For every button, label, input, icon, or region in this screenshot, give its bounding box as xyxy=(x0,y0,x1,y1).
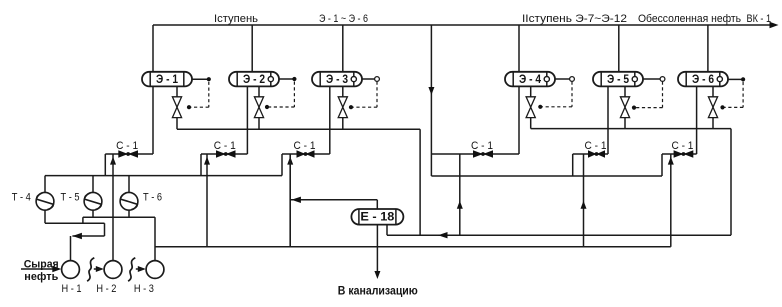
wire stage-I drain header xyxy=(177,128,420,130)
vessel electrodehydrator Э-1 xyxy=(142,72,192,87)
wire product drop from header to Э - 5 xyxy=(618,25,620,72)
svg-text:Iступень: Iступень xyxy=(214,13,258,25)
svg-text:С - 1: С - 1 xyxy=(471,140,493,152)
mixing valve C-1 #5 xyxy=(588,150,597,157)
node level instrument point xyxy=(207,77,211,81)
wire outlet Э - 5 right end xyxy=(643,78,663,80)
arrow to sewer xyxy=(374,271,380,279)
wire water drain from Э - 6 xyxy=(712,86,714,96)
svg-text:С - 1: С - 1 xyxy=(585,140,607,152)
arrow crude into pump xyxy=(138,266,146,272)
wire feed riser into Э - 3 bottom xyxy=(329,86,331,154)
svg-text:Э - 1 ~ Э - 6: Э - 1 ~ Э - 6 xyxy=(319,13,368,25)
vessel electrodehydrator Э-3 xyxy=(312,72,362,87)
wire water feed riser to mixer #6 xyxy=(670,154,672,247)
node valve actuator tap xyxy=(632,106,636,110)
svg-text:Обессоленная нефть: Обессоленная нефть xyxy=(638,13,741,25)
mixing valve C-1 #2 xyxy=(216,150,226,157)
heat exchanger Т-6 xyxy=(120,176,138,218)
wire pump H-3 riser xyxy=(154,217,156,261)
wire stage-II feed header F2 xyxy=(431,175,662,177)
wire pump H-1 riser xyxy=(70,236,72,261)
wire crude oil inlet xyxy=(21,268,53,270)
wire water feed riser to mixer #5 xyxy=(583,154,585,247)
wire stage-II drain downcomer xyxy=(730,129,732,236)
arrow feed into mixer #2 xyxy=(204,157,210,165)
nozzle circle on vessel end xyxy=(544,77,549,82)
svg-text:Н - 2: Н - 2 xyxy=(96,283,116,295)
svg-text:IIступень Э-7~Э-12: IIступень Э-7~Э-12 xyxy=(522,13,627,25)
arrow into H-1 riser xyxy=(72,233,82,239)
flow break symbol xyxy=(128,258,135,281)
vessel E-18 xyxy=(351,209,403,225)
control valve on Э - 3 drain xyxy=(338,97,347,107)
svg-text:Э - 5: Э - 5 xyxy=(607,72,629,86)
pump Н-1 xyxy=(62,261,80,279)
wire mixer C-1 #4 line xyxy=(431,153,519,155)
wire product drop from header to Э - 3 xyxy=(342,25,344,72)
wire outlet Э - 1 right end xyxy=(192,78,209,80)
wire outlet Э - 6 right end xyxy=(728,78,743,80)
pump Н-3 xyxy=(146,261,164,279)
wire instrument signal (dashed) xyxy=(662,82,664,108)
wire E-18 overhead line xyxy=(290,199,377,201)
svg-text:Т - 4: Т - 4 xyxy=(12,192,31,204)
arrow down on branch xyxy=(428,87,434,95)
svg-text:Н - 3: Н - 3 xyxy=(134,283,154,295)
arrow outlet BK-1 xyxy=(770,22,779,28)
wire exchanger water header W1 xyxy=(83,216,155,218)
svg-text:Н - 1: Н - 1 xyxy=(62,283,82,295)
svg-text:Э - 1: Э - 1 xyxy=(156,72,178,86)
vessel electrodehydrator Э-4 xyxy=(505,72,555,87)
wire branch from top header to stage-II mixers xyxy=(430,25,432,176)
wire outlet Э - 2 right end xyxy=(279,78,294,80)
wire feed/product line through Э - 4 xyxy=(518,25,520,154)
mixing valve C-1 #3 xyxy=(297,150,306,157)
control valve on Э - 5 drain xyxy=(620,97,629,107)
wire water feed riser to mixer #4 xyxy=(459,154,461,235)
wire exchanger water header W2 xyxy=(45,222,105,224)
flow break symbol xyxy=(87,258,94,281)
wire product drop from header to Э - 6 xyxy=(707,25,709,72)
wire outlet Э - 3 right end xyxy=(362,78,377,80)
wire mixer #5 supply elbow xyxy=(572,154,574,176)
wire water drain from Э - 3 xyxy=(342,86,344,96)
wire stage-I drain downcomer xyxy=(419,129,421,235)
svg-text:Е - 18: Е - 18 xyxy=(360,211,395,223)
svg-text:В канализацию: В канализацию xyxy=(338,285,418,297)
wire water drain from Э - 1 xyxy=(176,86,178,96)
svg-text:С - 1: С - 1 xyxy=(214,140,236,152)
svg-text:нефть: нефть xyxy=(24,271,58,283)
svg-text:Э - 6: Э - 6 xyxy=(692,72,714,86)
wire mixer #2 supply elbow xyxy=(200,154,202,176)
control valve on Э - 2 drain xyxy=(254,97,263,107)
wire mixer #3 supply elbow xyxy=(281,154,283,176)
arrow into recycle riser xyxy=(291,197,301,203)
arrow crude into H-1 xyxy=(52,266,61,272)
svg-text:Сырая: Сырая xyxy=(24,258,59,270)
vessel electrodehydrator Э-6 xyxy=(678,72,728,87)
mixing valve C-1 #4 xyxy=(473,150,483,157)
wire E-18 drain to sewer xyxy=(376,225,378,271)
arrow flow left on collect line xyxy=(438,232,448,238)
mixing valve C-1 #1 xyxy=(118,150,128,157)
control valve on Э - 6 drain xyxy=(708,97,717,107)
control valve on Э - 1 drain xyxy=(172,97,181,107)
mixing valve C-1 #6 xyxy=(674,150,684,157)
arrow crude into pump xyxy=(96,266,104,272)
wire instrument signal (dashed) xyxy=(376,82,378,108)
arrow feed into mixer #4 xyxy=(457,201,463,209)
node valve actuator tap xyxy=(187,105,191,109)
svg-text:С - 1: С - 1 xyxy=(671,140,693,152)
wire water feed riser to mixer #3 xyxy=(289,154,291,247)
pump Н-2 xyxy=(104,261,122,279)
node valve actuator tap xyxy=(349,105,353,109)
wire feed riser into Э - 6 bottom xyxy=(696,86,698,154)
svg-text:С - 1: С - 1 xyxy=(116,140,138,152)
wire W1-W2 connector xyxy=(82,217,84,223)
svg-text:Э - 2: Э - 2 xyxy=(243,72,265,86)
wire feed riser into Э - 2 bottom xyxy=(246,86,248,154)
svg-text:ВК - 1: ВК - 1 xyxy=(747,13,772,25)
level instrument circle xyxy=(375,77,380,82)
nozzle circle on vessel end xyxy=(268,77,273,82)
vessel electrodehydrator Э-2 xyxy=(229,72,279,87)
wire instrument signal (dashed) xyxy=(742,82,744,108)
svg-text:С - 1: С - 1 xyxy=(294,140,316,152)
wire product drop from header to Э - 2 xyxy=(251,25,253,72)
heat exchanger Т-4 xyxy=(36,176,54,224)
heat exchanger Т-5 xyxy=(84,176,102,218)
wire top product header to BK-1 xyxy=(153,24,770,26)
wire instrument signal (dashed) xyxy=(293,82,295,108)
node level instrument point xyxy=(741,77,745,81)
svg-text:Э - 4: Э - 4 xyxy=(519,72,541,86)
wire W2 downcomer xyxy=(104,223,106,236)
arrow feed into mixer #3 xyxy=(287,157,293,165)
node valve actuator tap xyxy=(720,105,724,109)
wire feed/product line through Э - 1 xyxy=(152,25,154,154)
wire water drain from Э - 2 xyxy=(258,86,260,96)
wire mixer C-1 #1 line xyxy=(105,153,153,155)
wire mixer #1 supply elbow xyxy=(104,154,106,176)
wire to pump H-1 riser xyxy=(72,235,104,237)
wire mixer C-1 #6 line xyxy=(662,153,697,155)
vessel electrodehydrator Э-5 xyxy=(593,72,643,87)
level instrument circle xyxy=(570,77,575,82)
wire outlet Э - 4 right end xyxy=(555,78,572,80)
wire instrument signal (dashed) xyxy=(571,82,573,107)
wire E-18 bottom outlet to collect line xyxy=(386,225,388,236)
arrow feed into mixer #5 xyxy=(581,201,587,209)
wire mixer C-1 #2 line xyxy=(201,153,247,155)
node level instrument point xyxy=(292,77,296,81)
svg-text:Т - 5: Т - 5 xyxy=(61,192,80,204)
node valve actuator tap xyxy=(538,105,542,109)
wire water drain from Э - 4 xyxy=(530,86,532,96)
nozzle circle on vessel end xyxy=(351,77,356,82)
wire instrument signal (dashed) xyxy=(208,82,210,108)
wire mixer C-1 #5 line xyxy=(573,153,608,155)
wire mixer #6 supply elbow xyxy=(661,154,663,176)
wire water feed riser to mixer #2 xyxy=(206,154,208,247)
level instrument circle xyxy=(660,77,665,82)
svg-text:Э - 3: Э - 3 xyxy=(326,72,348,86)
node valve actuator tap xyxy=(265,105,269,109)
nozzle circle on vessel end xyxy=(632,77,637,82)
wire stage-I feed header F1 xyxy=(45,175,282,177)
arrow feed into mixer #6 xyxy=(668,157,674,165)
wire feed riser into Э - 5 bottom xyxy=(607,86,609,154)
wire water drain from Э - 5 xyxy=(624,86,626,96)
arrow feed into mixer #1 xyxy=(110,157,116,165)
wire mixer C-1 #3 line xyxy=(282,153,330,155)
wire recycle riser (E-18 to mixer #3 / bottom line) xyxy=(289,154,291,247)
wire drain collect line to E-18 xyxy=(387,234,731,236)
wire bottom recycle water line xyxy=(155,246,671,248)
svg-text:Т - 6: Т - 6 xyxy=(143,192,162,204)
control valve on Э - 4 drain xyxy=(526,97,535,107)
wire pump H-2 riser (feeds mixer #1) xyxy=(112,154,114,261)
wire stage-II drain header xyxy=(531,128,731,130)
nozzle circle on vessel end xyxy=(717,77,722,82)
